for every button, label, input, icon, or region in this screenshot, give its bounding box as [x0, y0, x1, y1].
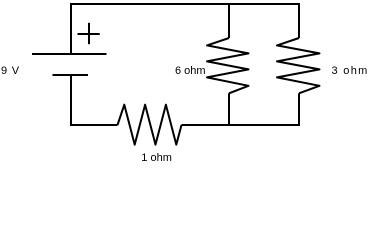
battery polarity plus sign [88, 23, 90, 44]
wire: 6 ohm branch top stub [228, 3, 230, 38]
wire: bottom rail left segment (battery to R1) [70, 124, 118, 126]
wire: battery positive lead (vertical into top plate) [70, 3, 72, 54]
svg-text:6 ohm: 6 ohm [175, 65, 206, 77]
svg-text:1 ohm: 1 ohm [141, 152, 172, 164]
wire: battery negative lead down to bottom rail [70, 75, 72, 126]
svg-text:9 V: 9 V [1, 65, 20, 77]
battery B1 negative plate (short) [53, 74, 89, 76]
wire: 3 ohm branch bottom stub [298, 93, 300, 126]
wire: bottom rail right segment (R1 to right branch) [182, 124, 301, 126]
resistor R3 3 ohm (vertical zigzag) [277, 38, 320, 93]
resistor R1 1 ohm (horizontal zigzag) [118, 105, 182, 145]
wire: 3 ohm branch top stub [298, 3, 300, 38]
battery B1 positive plate (long) [32, 53, 107, 55]
wire: top rail from battery to right branch [70, 3, 300, 5]
wire: 6 ohm branch bottom stub [228, 93, 230, 126]
svg-text:3 ohm: 3 ohm [332, 65, 369, 77]
resistor R2 6 ohm (vertical zigzag) [207, 38, 249, 93]
